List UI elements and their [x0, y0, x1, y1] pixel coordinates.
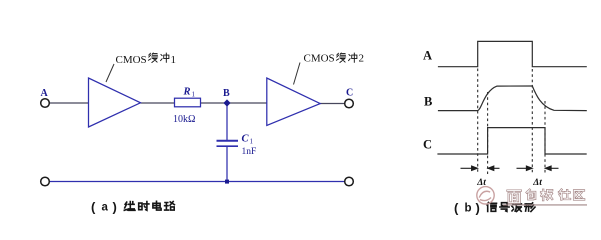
svg-text:10kΩ: 10kΩ	[173, 114, 195, 125]
svg-text:1: 1	[250, 138, 254, 146]
svg-text:C: C	[242, 134, 250, 145]
svg-text:): )	[476, 201, 480, 216]
svg-text:Δt: Δt	[532, 178, 542, 188]
svg-text:): )	[113, 200, 117, 215]
svg-text:(: (	[454, 201, 459, 216]
svg-text:C: C	[346, 88, 353, 99]
svg-text:CMOS: CMOS	[304, 53, 335, 65]
svg-text:C: C	[423, 137, 432, 151]
svg-text:B: B	[223, 88, 230, 99]
svg-text:R: R	[183, 87, 191, 98]
svg-text:B: B	[424, 94, 432, 108]
svg-text:2: 2	[359, 53, 365, 65]
svg-text:CMOS: CMOS	[116, 54, 147, 66]
svg-text:1: 1	[192, 91, 196, 99]
svg-text:a: a	[102, 202, 109, 214]
svg-text:A: A	[423, 48, 432, 62]
svg-text:(: (	[91, 200, 96, 215]
svg-text:b: b	[465, 203, 472, 215]
svg-text:1nF: 1nF	[242, 147, 257, 157]
svg-text:1: 1	[171, 54, 177, 66]
svg-text:A: A	[41, 88, 49, 99]
